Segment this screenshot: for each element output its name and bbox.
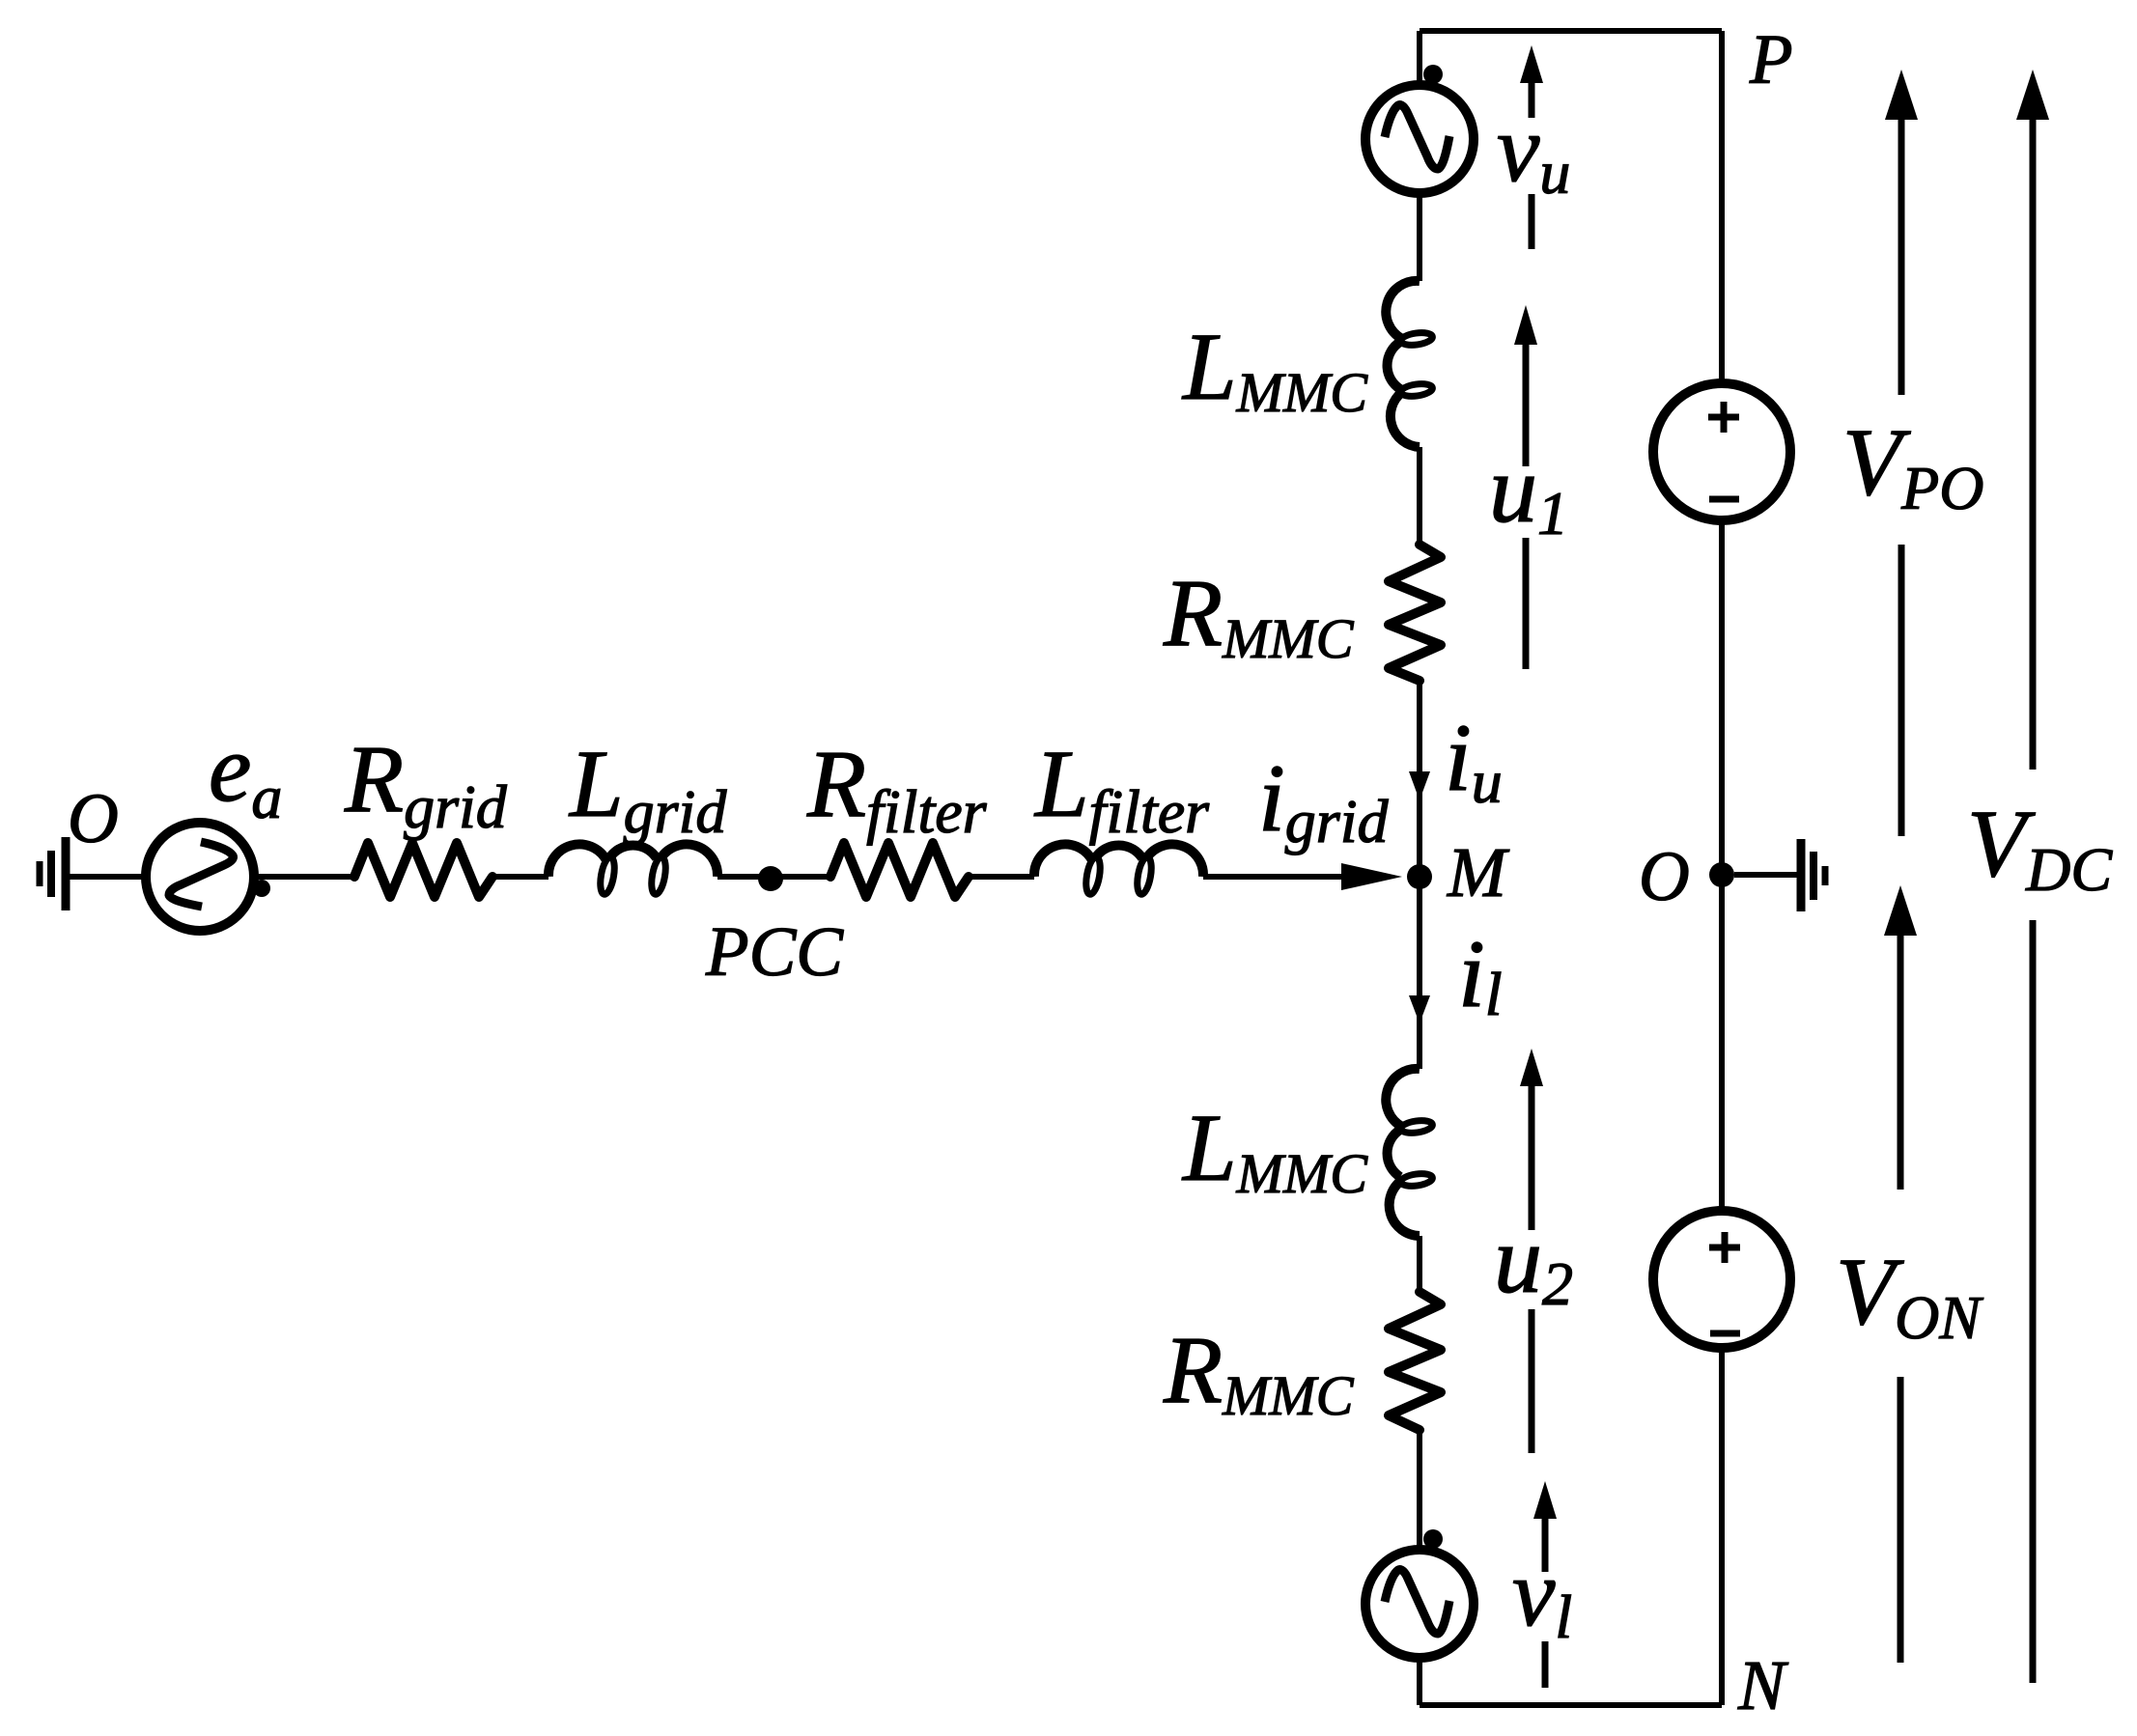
svg-text:N: N (1737, 1646, 1789, 1724)
svg-text:O: O (1639, 837, 1690, 915)
svg-text:PCC: PCC (705, 912, 844, 991)
svg-text:M: M (1447, 833, 1510, 911)
svg-text:O: O (68, 779, 119, 857)
svg-text:P: P (1749, 20, 1793, 98)
